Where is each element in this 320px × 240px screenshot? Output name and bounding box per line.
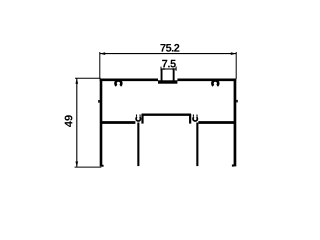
screw port ring mid-right [193,117,197,121]
inner leg left [137,123,139,167]
arrow 49 top [75,78,78,83]
extension tick 7.5 right [175,67,177,71]
arrow 75.2 right [231,52,236,55]
extension line 49 top [75,77,101,79]
arrow 49 bottom [75,162,78,167]
profile top flange right segment [177,79,236,82]
screw port ring top-right [212,80,218,85]
screw port ring top-left [115,80,121,85]
extension line 75.2 left [99,52,101,79]
glazing tab left wall [161,69,163,81]
glazing tab right wall [173,69,175,81]
arrow 7.5 right [173,68,176,70]
dimension text 49 [65,115,73,127]
profile top flange left segment [100,79,158,82]
inner leg right [196,123,198,167]
screw port mid-left lip left [136,115,138,117]
platform left step [141,114,143,124]
glazing tab base [158,80,177,83]
raised platform web [142,113,191,115]
mid rail right segment [198,121,236,124]
arrow 7.5 left [161,68,164,70]
screw port ring mid-left [136,117,140,121]
extension tick 7.5 left [160,67,162,71]
dimension line 49 [76,78,78,167]
left wall nub [98,100,100,103]
extension line 49 bottom [75,166,102,168]
screw port mid-right lip left [192,115,194,117]
right wall foot [232,165,234,167]
dimension line 75.2 [100,53,236,55]
right wall nub [236,100,238,103]
screw port mid-left lip right [139,115,141,117]
arrow 75.2 left [100,52,105,55]
left wall foot [101,165,104,167]
left outer wall [100,79,103,167]
screw port mid-right lip right [196,115,198,117]
extension line 75.2 right [235,52,237,79]
mid rail left segment [100,121,135,124]
dimension line 7.5 [161,68,176,70]
platform right step [189,114,191,124]
dimension text 7.5 [162,60,176,68]
right outer wall [234,79,237,167]
dimension text 75.2 [160,44,179,52]
